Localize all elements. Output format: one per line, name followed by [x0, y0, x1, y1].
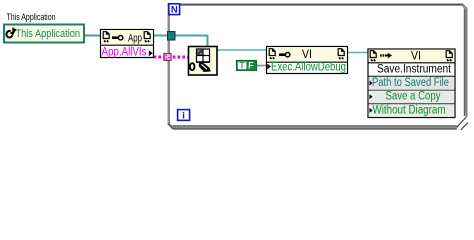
svg-text:This Application: This Application: [16, 28, 81, 40]
svg-text:App.AllVIs: App.AllVIs: [102, 47, 147, 59]
svg-text:N: N: [171, 4, 178, 15]
svg-text:Save a Copy: Save a Copy: [386, 90, 441, 102]
svg-text:This Application: This Application: [7, 12, 56, 22]
svg-text:VI: VI: [411, 51, 421, 63]
svg-text:Without Diagram: Without Diagram: [373, 105, 446, 117]
svg-text:Path to Saved File: Path to Saved File: [372, 77, 449, 89]
svg-text:T: T: [239, 61, 245, 71]
svg-text:VI: VI: [302, 49, 312, 61]
svg-text:App: App: [128, 33, 142, 45]
svg-text:i: i: [182, 110, 185, 121]
svg-text:F: F: [248, 61, 254, 71]
svg-text:Save.Instrument: Save.Instrument: [377, 64, 452, 76]
svg-text:Exec.AllowDebug: Exec.AllowDebug: [271, 61, 346, 73]
